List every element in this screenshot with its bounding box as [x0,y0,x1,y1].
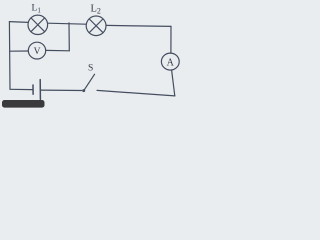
svg-text:S: S [88,64,93,74]
svg-text:V: V [34,47,41,57]
svg-text:A: A [167,57,175,68]
